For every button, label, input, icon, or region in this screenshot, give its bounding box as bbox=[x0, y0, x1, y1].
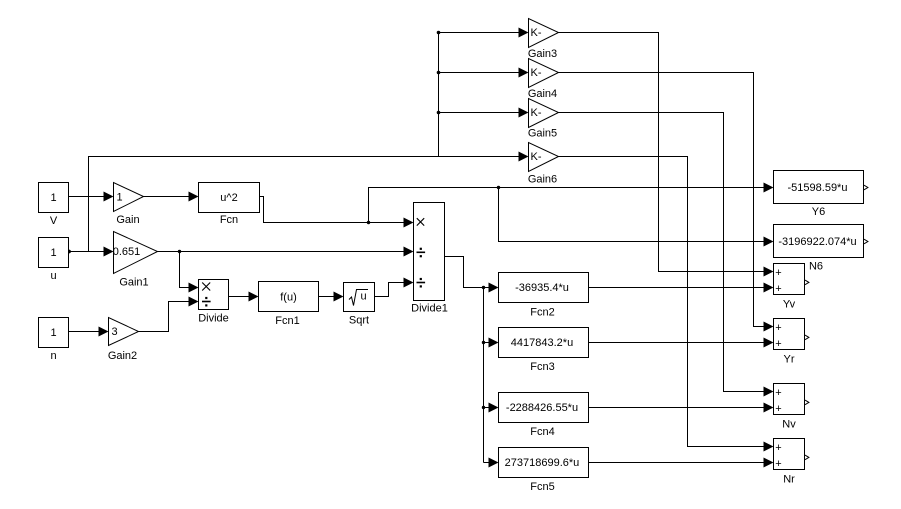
svg-text:0.651: 0.651 bbox=[113, 246, 141, 258]
svg-text:+: + bbox=[775, 267, 781, 279]
svg-text:Y6: Y6 bbox=[812, 206, 825, 218]
svg-text:V: V bbox=[50, 215, 58, 227]
svg-text:Fcn2: Fcn2 bbox=[530, 307, 554, 319]
svg-text:Yv: Yv bbox=[783, 299, 796, 311]
svg-text:N6: N6 bbox=[809, 261, 823, 273]
svg-text:+: + bbox=[775, 458, 781, 470]
svg-text:Fcn5: Fcn5 bbox=[530, 481, 554, 493]
svg-text:-3196922.074*u: -3196922.074*u bbox=[778, 236, 856, 248]
svg-text:K-: K- bbox=[531, 27, 542, 39]
svg-text:u: u bbox=[360, 291, 366, 303]
svg-text:n: n bbox=[50, 350, 56, 362]
svg-text:Fcn3: Fcn3 bbox=[530, 361, 554, 373]
svg-text:Gain1: Gain1 bbox=[119, 277, 148, 289]
svg-text:+: + bbox=[775, 403, 781, 415]
svg-text:Divide: Divide bbox=[198, 313, 229, 325]
svg-text:u^2: u^2 bbox=[220, 192, 237, 204]
svg-text:+: + bbox=[775, 338, 781, 350]
svg-text:+: + bbox=[775, 442, 781, 454]
svg-text:+: + bbox=[775, 387, 781, 399]
svg-text:Gain4: Gain4 bbox=[528, 88, 557, 100]
svg-text:u: u bbox=[50, 270, 56, 282]
svg-text:f(u): f(u) bbox=[280, 292, 297, 304]
svg-text:Fcn: Fcn bbox=[220, 214, 238, 226]
svg-text:Fcn1: Fcn1 bbox=[275, 315, 299, 327]
svg-text:+: + bbox=[775, 322, 781, 334]
svg-text:-51598.59*u: -51598.59*u bbox=[788, 182, 848, 194]
svg-text:4417843.2*u: 4417843.2*u bbox=[511, 337, 573, 349]
svg-text:1: 1 bbox=[50, 247, 56, 259]
svg-text:Nr: Nr bbox=[783, 474, 795, 486]
svg-text:-2288426.55*u: -2288426.55*u bbox=[506, 402, 578, 414]
svg-text:Gain: Gain bbox=[116, 214, 139, 226]
svg-text:273718699.6*u: 273718699.6*u bbox=[505, 457, 580, 469]
svg-text:3: 3 bbox=[111, 326, 117, 338]
svg-text:Yr: Yr bbox=[784, 354, 795, 366]
svg-text:K-: K- bbox=[531, 67, 542, 79]
svg-text:1: 1 bbox=[50, 327, 56, 339]
svg-text:Gain2: Gain2 bbox=[108, 350, 137, 362]
svg-text:Sqrt: Sqrt bbox=[349, 315, 369, 327]
svg-text:-36935.4*u: -36935.4*u bbox=[515, 282, 569, 294]
svg-text:Nv: Nv bbox=[782, 419, 796, 431]
svg-text:1: 1 bbox=[116, 192, 122, 204]
svg-text:+: + bbox=[775, 283, 781, 295]
svg-text:K-: K- bbox=[531, 107, 542, 119]
svg-text:Divide1: Divide1 bbox=[411, 303, 448, 315]
svg-text:Fcn4: Fcn4 bbox=[530, 426, 554, 438]
svg-text:1: 1 bbox=[50, 192, 56, 204]
svg-text:Gain3: Gain3 bbox=[528, 48, 557, 60]
svg-text:Gain5: Gain5 bbox=[528, 128, 557, 140]
svg-text:K-: K- bbox=[531, 151, 542, 163]
svg-text:Gain6: Gain6 bbox=[528, 174, 557, 186]
